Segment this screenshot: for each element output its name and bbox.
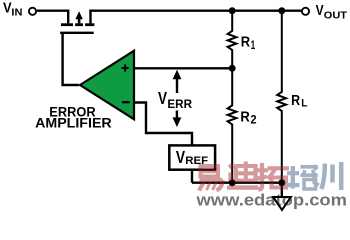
junction top load: [278, 7, 285, 14]
wire bottom ground rail: [192, 181, 282, 183]
svg-text:AMPLIFIER: AMPLIFIER: [35, 116, 112, 131]
resistor R2: [228, 68, 257, 182]
junction feedback node: [229, 65, 236, 72]
label VERR with arrows: [158, 70, 192, 127]
voltage reference VREF box: [169, 145, 215, 169]
svg-text:L: L: [301, 98, 307, 110]
wire VIN to pass transistor source: [37, 9, 68, 11]
svg-text:2: 2: [250, 114, 257, 127]
svg-text:www.edatop.com: www.edatop.com: [195, 192, 347, 210]
svg-text:OUT: OUT: [324, 9, 348, 21]
svg-text:R: R: [240, 108, 250, 125]
wire transistor drain to VOUT: [89, 9, 302, 11]
wire VREF to ground rail: [191, 170, 193, 183]
svg-text:V: V: [3, 0, 12, 16]
svg-text:V: V: [176, 147, 185, 167]
svg-text:ERR: ERR: [167, 97, 192, 111]
svg-text:R: R: [291, 92, 300, 109]
watermark chinese characters blue part: [287, 162, 342, 190]
junction top feedback divider: [229, 7, 236, 14]
svg-text:V: V: [316, 2, 324, 19]
svg-text:R: R: [241, 34, 251, 51]
op-amp U1 error amplifier: [80, 51, 134, 119]
wire noninverting input to feedback node: [133, 67, 232, 69]
svg-text:IN: IN: [11, 7, 22, 19]
wire inverting input to VREF: [133, 103, 192, 146]
transistor Q1 pass PMOS: [60, 10, 94, 33]
watermark chinese characters red part: [199, 162, 289, 191]
label ERROR AMPLIFIER: [35, 105, 112, 131]
node VOUT terminal: [302, 2, 348, 21]
wire load bottom to ground: [281, 183, 283, 197]
resistor RL load: [277, 11, 307, 183]
junction load bottom: [278, 179, 285, 186]
junction R2 bottom: [229, 179, 236, 186]
node VIN terminal: [3, 0, 36, 19]
ground: [273, 197, 291, 210]
resistor R1: [228, 11, 256, 69]
svg-text:V: V: [158, 88, 167, 108]
wire gate to error amplifier output: [63, 33, 79, 85]
svg-text:1: 1: [251, 39, 256, 52]
